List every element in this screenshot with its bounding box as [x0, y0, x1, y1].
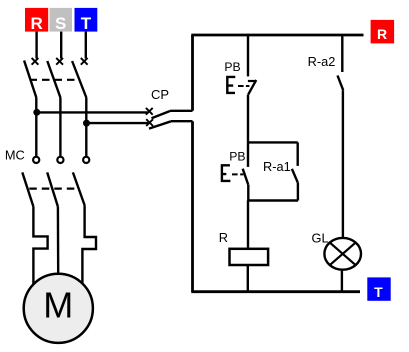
- CP contact x pole 2: [146, 119, 153, 126]
- CP blade pole 2: [149, 121, 171, 128]
- wire loop to relay coil: [247, 201, 249, 249]
- svg-text:PB: PB: [229, 149, 245, 163]
- svg-text:GL: GL: [312, 231, 329, 246]
- R-a1 contact lower leg: [297, 183, 299, 201]
- control circuit left rail lower segment: [191, 121, 194, 292]
- svg-text:T: T: [374, 284, 383, 300]
- junction node phase R: [33, 109, 40, 116]
- relay coil R: [230, 249, 269, 265]
- svg-text:R: R: [30, 14, 42, 33]
- MC blade pole 3: [73, 172, 85, 205]
- breaker contact x pole 2: [56, 58, 63, 65]
- phase source box T: [75, 8, 98, 33]
- wire top rail to PB1: [247, 35, 249, 76]
- wire from T box to breaker: [85, 32, 87, 59]
- wire PB1 to loop: [247, 95, 249, 143]
- PB2 actuator E: [221, 164, 231, 182]
- loop left leg lower: [247, 185, 249, 201]
- wire phase 2 breaker to MC: [59, 98, 61, 157]
- svg-text:R: R: [377, 26, 387, 42]
- breaker blade pole 1: [24, 61, 36, 98]
- wire lamp to bottom rail: [341, 271, 343, 292]
- loop left leg upper: [247, 142, 249, 167]
- svg-text:S: S: [55, 14, 66, 33]
- PB1 actuator E: [226, 76, 235, 94]
- R-a1 contact upper leg: [297, 142, 299, 166]
- MC blade pole 1: [22, 172, 33, 206]
- parallel loop top wire: [248, 141, 298, 143]
- motor M: [24, 274, 93, 343]
- svg-text:CP: CP: [151, 87, 169, 102]
- svg-text:R: R: [219, 230, 228, 245]
- PB1 NC contact tick: [248, 80, 257, 82]
- thermal overload heater phase 1: [33, 207, 47, 285]
- MC linkage (dashed): [29, 188, 79, 190]
- breaker linkage (dashed): [30, 79, 78, 81]
- terminal box R: [371, 20, 395, 44]
- R-a1 NO blade: [292, 169, 298, 183]
- control circuit left rail upper segment: [191, 35, 194, 111]
- breaker contact x pole 3: [81, 58, 88, 65]
- wire top rail to R-a2: [341, 35, 343, 72]
- wire CP pole 2 to control left rail: [171, 120, 193, 122]
- control circuit top rail: [191, 34, 363, 37]
- wire R phase to CP pole 1: [36, 111, 148, 113]
- MC contact terminal 2: [57, 157, 63, 163]
- PB2 actuator link dashes: [232, 173, 243, 175]
- svg-text:MC: MC: [5, 147, 25, 162]
- phase source box S: [50, 8, 73, 33]
- wire phase 3 breaker to MC: [85, 98, 87, 157]
- junction node phase T: [83, 120, 90, 127]
- wire from R box to breaker: [35, 32, 37, 59]
- wire coil to bottom rail: [247, 265, 249, 292]
- svg-text:R-a2: R-a2: [308, 54, 336, 69]
- PB2 NO blade: [243, 169, 249, 185]
- wire R-a2 to lamp: [342, 90, 344, 237]
- CP blade pole 1: [152, 111, 171, 118]
- phase source box R: [25, 8, 48, 33]
- breaker contact x pole 1: [32, 58, 39, 65]
- MC blade pole 2: [47, 172, 58, 206]
- wire T phase to CP pole 2: [86, 122, 148, 124]
- svg-text:PB: PB: [224, 60, 240, 74]
- wire phase 2 to motor: [57, 207, 60, 274]
- PB1 NC blade: [248, 80, 256, 95]
- wire from S box to breaker: [60, 32, 62, 59]
- control circuit bottom rail: [191, 290, 360, 293]
- CP contact x pole 1: [146, 108, 153, 115]
- wire CP pole 1 to control rail: [170, 110, 193, 112]
- PB1 actuator link dash: [238, 85, 249, 87]
- svg-text:R-a1: R-a1: [263, 159, 291, 174]
- breaker blade pole 3: [72, 61, 86, 98]
- breaker blade pole 2: [47, 61, 60, 98]
- lamp GL: [324, 238, 361, 270]
- svg-text:T: T: [81, 14, 92, 33]
- terminal box T: [367, 277, 390, 300]
- wire phase 1 breaker to MC: [35, 98, 37, 157]
- MC contact terminal 1: [33, 157, 39, 163]
- R-a2 NO blade: [338, 76, 344, 91]
- MC contact terminal 3: [83, 157, 89, 163]
- thermal overload heater phase 3: [82, 206, 96, 284]
- svg-text:M: M: [43, 285, 73, 326]
- parallel loop bottom wire: [248, 199, 298, 201]
